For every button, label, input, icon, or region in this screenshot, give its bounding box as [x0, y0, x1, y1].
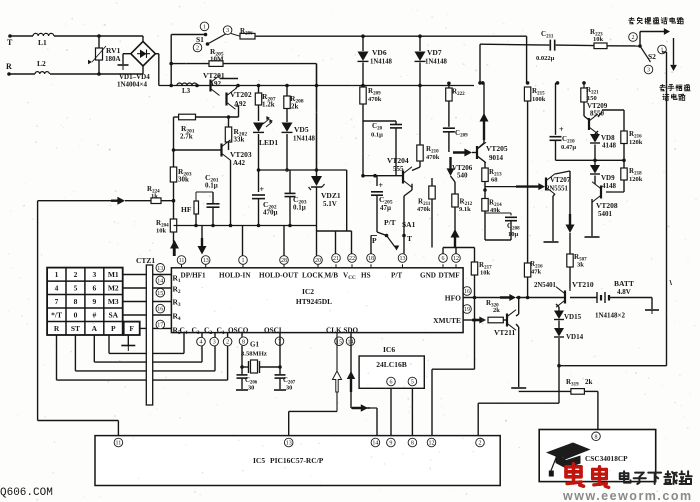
svg-text:1: 1: [203, 25, 206, 31]
svg-text:VD5: VD5: [294, 125, 309, 134]
svg-text:HOLD-OUT: HOLD-OUT: [259, 272, 298, 280]
svg-text:0: 0: [74, 310, 78, 319]
svg-text:33k: 33k: [234, 136, 245, 144]
svg-text:2: 2: [479, 441, 482, 447]
svg-text:VT207: VT207: [550, 176, 571, 184]
svg-text:2k: 2k: [585, 378, 593, 386]
svg-text:5: 5: [74, 283, 78, 292]
svg-text:CSC34018CP: CSC34018CP: [585, 454, 628, 463]
svg-text:LOCK: LOCK: [302, 272, 324, 280]
svg-text:0.47µ: 0.47µ: [561, 144, 576, 151]
svg-text:#: #: [92, 310, 96, 319]
svg-text:P/T: P/T: [391, 272, 402, 280]
svg-text:0.1µ: 0.1µ: [371, 132, 383, 139]
svg-text:VD15: VD15: [564, 313, 582, 321]
svg-text:16: 16: [157, 307, 163, 313]
svg-text:2N5551: 2N5551: [546, 186, 569, 193]
svg-text:VDZ1: VDZ1: [321, 191, 341, 200]
svg-text:3k: 3k: [577, 262, 584, 269]
svg-text:11: 11: [116, 441, 122, 447]
svg-text:3: 3: [647, 68, 650, 74]
svg-text:3: 3: [226, 28, 229, 34]
svg-text:VT203: VT203: [230, 150, 252, 159]
svg-text:47k: 47k: [531, 269, 542, 276]
svg-text:P: P: [372, 236, 377, 245]
svg-text:SA: SA: [108, 310, 118, 319]
svg-text:A92: A92: [234, 100, 247, 108]
svg-text:OSCI: OSCI: [264, 326, 282, 334]
svg-text:0.022µ: 0.022µ: [536, 55, 555, 62]
svg-text:470µ: 470µ: [263, 209, 277, 217]
svg-text:XMUTE: XMUTE: [433, 316, 461, 325]
svg-text:10M: 10M: [210, 55, 224, 63]
svg-text:T: T: [7, 38, 13, 47]
svg-text:16: 16: [464, 289, 470, 295]
svg-text:DTMF: DTMF: [439, 272, 461, 280]
svg-text:VT204: VT204: [387, 156, 409, 165]
svg-text:18: 18: [368, 256, 374, 262]
svg-text:21: 21: [333, 256, 339, 262]
svg-text:www.eeworm.com: www.eeworm.com: [562, 489, 693, 502]
svg-text:4.8V: 4.8V: [617, 288, 631, 296]
svg-text:1N4148: 1N4148: [370, 59, 393, 66]
svg-text:14: 14: [157, 278, 163, 284]
svg-text:M2: M2: [108, 283, 119, 292]
svg-text:19: 19: [464, 307, 470, 313]
svg-text:100k: 100k: [532, 96, 546, 103]
svg-text:8: 8: [242, 339, 245, 345]
svg-text:F: F: [129, 324, 134, 333]
svg-text:0.1µ: 0.1µ: [293, 204, 306, 212]
svg-text:9: 9: [389, 441, 392, 447]
svg-text:Q606.COM: Q606.COM: [0, 487, 53, 499]
svg-text:13: 13: [286, 441, 292, 447]
svg-text:HS: HS: [361, 272, 371, 280]
svg-text:L3: L3: [182, 87, 191, 95]
svg-text:T: T: [407, 234, 412, 243]
svg-text:6: 6: [390, 380, 393, 386]
svg-text:+: +: [379, 181, 384, 190]
svg-text:13: 13: [157, 266, 163, 272]
svg-text:L2: L2: [37, 59, 46, 68]
svg-text:1N4148: 1N4148: [293, 136, 316, 143]
svg-text:2: 2: [226, 340, 229, 346]
svg-text:2N5401: 2N5401: [534, 282, 557, 289]
svg-text:IC6: IC6: [383, 345, 395, 354]
svg-text:1N4148: 1N4148: [425, 59, 448, 66]
svg-text:+: +: [260, 185, 265, 194]
svg-text:5401: 5401: [598, 210, 613, 218]
svg-text:+: +: [559, 125, 564, 134]
svg-text:VT208: VT208: [596, 201, 618, 210]
svg-text:15: 15: [157, 291, 163, 297]
svg-text:HT9245DL: HT9245DL: [296, 297, 332, 306]
svg-text:LED1: LED1: [259, 138, 278, 147]
svg-text:G1: G1: [250, 341, 259, 349]
svg-text:SA1: SA1: [402, 220, 416, 229]
svg-text:3: 3: [92, 270, 96, 279]
svg-text:9: 9: [92, 297, 96, 306]
svg-text:VD6: VD6: [372, 48, 387, 57]
svg-text:VT211: VT211: [494, 328, 516, 337]
svg-text:5: 5: [411, 380, 414, 386]
svg-text:R: R: [6, 62, 12, 71]
svg-text:4: 4: [55, 283, 59, 292]
svg-text:10k: 10k: [480, 270, 491, 277]
svg-text:R: R: [54, 324, 60, 333]
svg-text:6: 6: [442, 256, 445, 262]
svg-text:P: P: [111, 324, 116, 333]
svg-text:VT205: VT205: [486, 144, 508, 153]
svg-text:1: 1: [55, 270, 59, 279]
svg-text:0.1µ: 0.1µ: [205, 182, 218, 190]
svg-text:M/B: M/B: [325, 272, 339, 280]
svg-text:6: 6: [92, 283, 96, 292]
svg-text:470k: 470k: [368, 96, 382, 103]
svg-text:VT202: VT202: [230, 90, 252, 99]
svg-text:12: 12: [453, 256, 459, 262]
svg-text:A: A: [92, 324, 98, 333]
svg-text:470k: 470k: [426, 154, 440, 161]
svg-text:150: 150: [587, 95, 597, 102]
svg-text:8: 8: [74, 297, 78, 306]
svg-text:1N4004×4: 1N4004×4: [117, 81, 148, 89]
svg-text:9014: 9014: [489, 154, 504, 162]
svg-text:ST: ST: [71, 324, 80, 333]
svg-text:3: 3: [213, 340, 216, 346]
svg-text:4: 4: [200, 340, 203, 346]
svg-text:30k: 30k: [178, 176, 189, 184]
svg-text:4148: 4148: [602, 142, 617, 150]
svg-text:10k: 10k: [593, 36, 604, 43]
svg-text:20: 20: [315, 258, 321, 264]
svg-text:BATT: BATT: [614, 279, 634, 288]
svg-text:2.7k: 2.7k: [180, 133, 193, 141]
svg-text:*/T: */T: [51, 310, 62, 319]
svg-text:17: 17: [157, 323, 163, 329]
svg-text:7: 7: [55, 297, 59, 306]
svg-text:47µ: 47µ: [380, 204, 391, 212]
svg-text:A42: A42: [233, 159, 246, 167]
svg-text:2: 2: [632, 35, 635, 41]
svg-text:14: 14: [372, 441, 378, 447]
svg-text:8: 8: [595, 434, 598, 440]
svg-text:1N4148×2: 1N4148×2: [595, 312, 626, 320]
svg-text:IC5: IC5: [253, 456, 265, 465]
svg-text:13: 13: [400, 256, 406, 262]
svg-text:1: 1: [242, 258, 245, 264]
svg-text:5.1V: 5.1V: [323, 200, 337, 208]
svg-text:28: 28: [281, 258, 287, 264]
svg-text:120k: 120k: [629, 139, 643, 146]
svg-text:13: 13: [203, 258, 209, 264]
svg-text:11: 11: [179, 258, 185, 264]
svg-text:GND: GND: [420, 272, 436, 280]
svg-text:DP/HF1: DP/HF1: [181, 272, 207, 280]
svg-text:RV1: RV1: [106, 46, 121, 55]
svg-text:HOLD-IN: HOLD-IN: [219, 272, 251, 280]
svg-text:30: 30: [248, 385, 254, 392]
svg-text:M1: M1: [108, 270, 119, 279]
svg-text:PIC16C57-RC/P: PIC16C57-RC/P: [270, 456, 324, 465]
svg-text:8: 8: [411, 441, 414, 447]
svg-text:CLK SDO: CLK SDO: [326, 326, 359, 334]
svg-text:470k: 470k: [417, 206, 431, 213]
svg-text:HF: HF: [181, 205, 192, 214]
svg-text:1k: 1k: [151, 193, 158, 200]
svg-text:68: 68: [491, 177, 498, 184]
svg-text:180A: 180A: [105, 55, 121, 63]
svg-text:120k: 120k: [629, 176, 643, 183]
svg-text:2: 2: [196, 46, 199, 52]
svg-text:VT210: VT210: [572, 280, 594, 289]
svg-text:10µ: 10µ: [508, 231, 519, 238]
svg-text:24LC16B: 24LC16B: [376, 360, 406, 369]
svg-text:1.2k: 1.2k: [262, 101, 275, 109]
svg-text:VD9: VD9: [601, 174, 615, 182]
svg-text:OSCO: OSCO: [228, 326, 249, 334]
svg-text:VD14: VD14: [566, 333, 584, 341]
svg-text:IC2: IC2: [302, 287, 314, 296]
svg-text:HFO: HFO: [445, 294, 461, 303]
svg-text:M3: M3: [108, 297, 119, 306]
svg-text:4148: 4148: [602, 182, 617, 190]
svg-text:10k: 10k: [156, 228, 167, 235]
svg-text:2k: 2k: [493, 307, 500, 314]
svg-text:2: 2: [74, 270, 78, 279]
svg-text:540: 540: [457, 172, 468, 180]
svg-text:P/T: P/T: [384, 218, 396, 227]
svg-text:S1: S1: [196, 35, 204, 44]
svg-text:3.58MHz: 3.58MHz: [241, 351, 267, 358]
svg-text:2k: 2k: [291, 103, 298, 111]
svg-text:22: 22: [349, 256, 355, 262]
svg-text:9.1k: 9.1k: [459, 206, 471, 213]
svg-text:L1: L1: [38, 38, 47, 47]
svg-text:VD7: VD7: [427, 48, 442, 57]
svg-text:12: 12: [429, 441, 435, 447]
